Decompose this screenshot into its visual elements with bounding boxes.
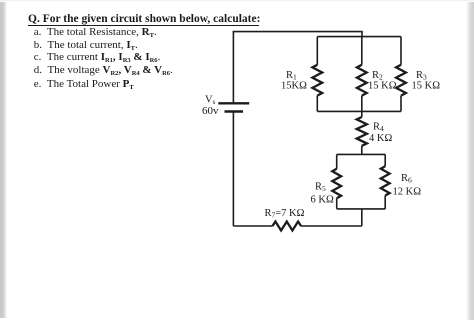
- battery Vs short plate: [225, 110, 244, 112]
- item a: [34, 27, 157, 38]
- left page edge shading: [0, 0, 7, 318]
- wire: R6 bottom lead: [384, 196, 386, 209]
- top faint edge: [0, 0, 474, 2]
- wire: top rail of R1/R2/R3 parallel box: [317, 36, 401, 38]
- wire: R4 bottom lead to lower box: [361, 146, 363, 155]
- resistor R4: [357, 117, 367, 146]
- wire: R2 top lead: [361, 37, 363, 65]
- svg-text:12 KΩ: 12 KΩ: [393, 187, 422, 198]
- svg-text:60v: 60v: [202, 105, 219, 117]
- wire: R2 bottom lead: [361, 96, 363, 112]
- item e: [34, 79, 134, 90]
- wire: R1 bottom lead: [316, 96, 318, 112]
- wire: top rail of R5/R6 parallel box: [337, 153, 386, 155]
- svg-text:R5: R5: [315, 182, 326, 194]
- title underline: [28, 25, 259, 26]
- resistor R6: [381, 166, 390, 195]
- wire: R5 top lead: [336, 154, 338, 168]
- wire: bottom wire left segment: [233, 225, 272, 227]
- svg-text:4 KΩ: 4 KΩ: [369, 133, 392, 144]
- svg-text:15 KΩ: 15 KΩ: [412, 81, 441, 92]
- resistor R1: [312, 65, 322, 96]
- svg-text:6 KΩ: 6 KΩ: [311, 195, 334, 206]
- question title: [28, 14, 260, 26]
- wire: R3 top lead: [400, 37, 402, 65]
- resistor R7: [273, 222, 302, 231]
- wire: R1 top lead: [316, 37, 318, 65]
- wire: R4 top lead: [361, 111, 363, 117]
- wire: battery negative down lead: [232, 112, 234, 227]
- wire: center drop from lower box to bottom wire: [361, 209, 363, 226]
- wire: bottom rail of R1/R2/R3 parallel box: [317, 110, 401, 112]
- svg-text:R7=7 KΩ: R7=7 KΩ: [265, 208, 305, 220]
- wire: bottom rail of R5/R6 parallel box: [337, 208, 386, 210]
- item c: [34, 52, 161, 63]
- item d: [34, 65, 173, 76]
- resistor R3: [396, 65, 406, 96]
- svg-text:R4: R4: [373, 122, 384, 134]
- wire: R6 top lead: [384, 154, 386, 166]
- svg-text:15KΩ: 15KΩ: [281, 81, 307, 92]
- wire: battery positive up and top wire to R2 node: [233, 32, 362, 104]
- right page edge shading: [466, 0, 474, 320]
- resistor R2: [357, 65, 367, 96]
- item b: [34, 40, 138, 51]
- battery Vs long plate: [218, 102, 249, 104]
- wire: R3 bottom lead: [400, 96, 402, 112]
- resistor R5: [332, 169, 341, 199]
- svg-text:R6: R6: [401, 173, 412, 185]
- svg-text:15 KΩ: 15 KΩ: [368, 81, 397, 92]
- wire: R5 bottom lead: [336, 198, 338, 209]
- wire: bottom wire right segment: [301, 225, 362, 227]
